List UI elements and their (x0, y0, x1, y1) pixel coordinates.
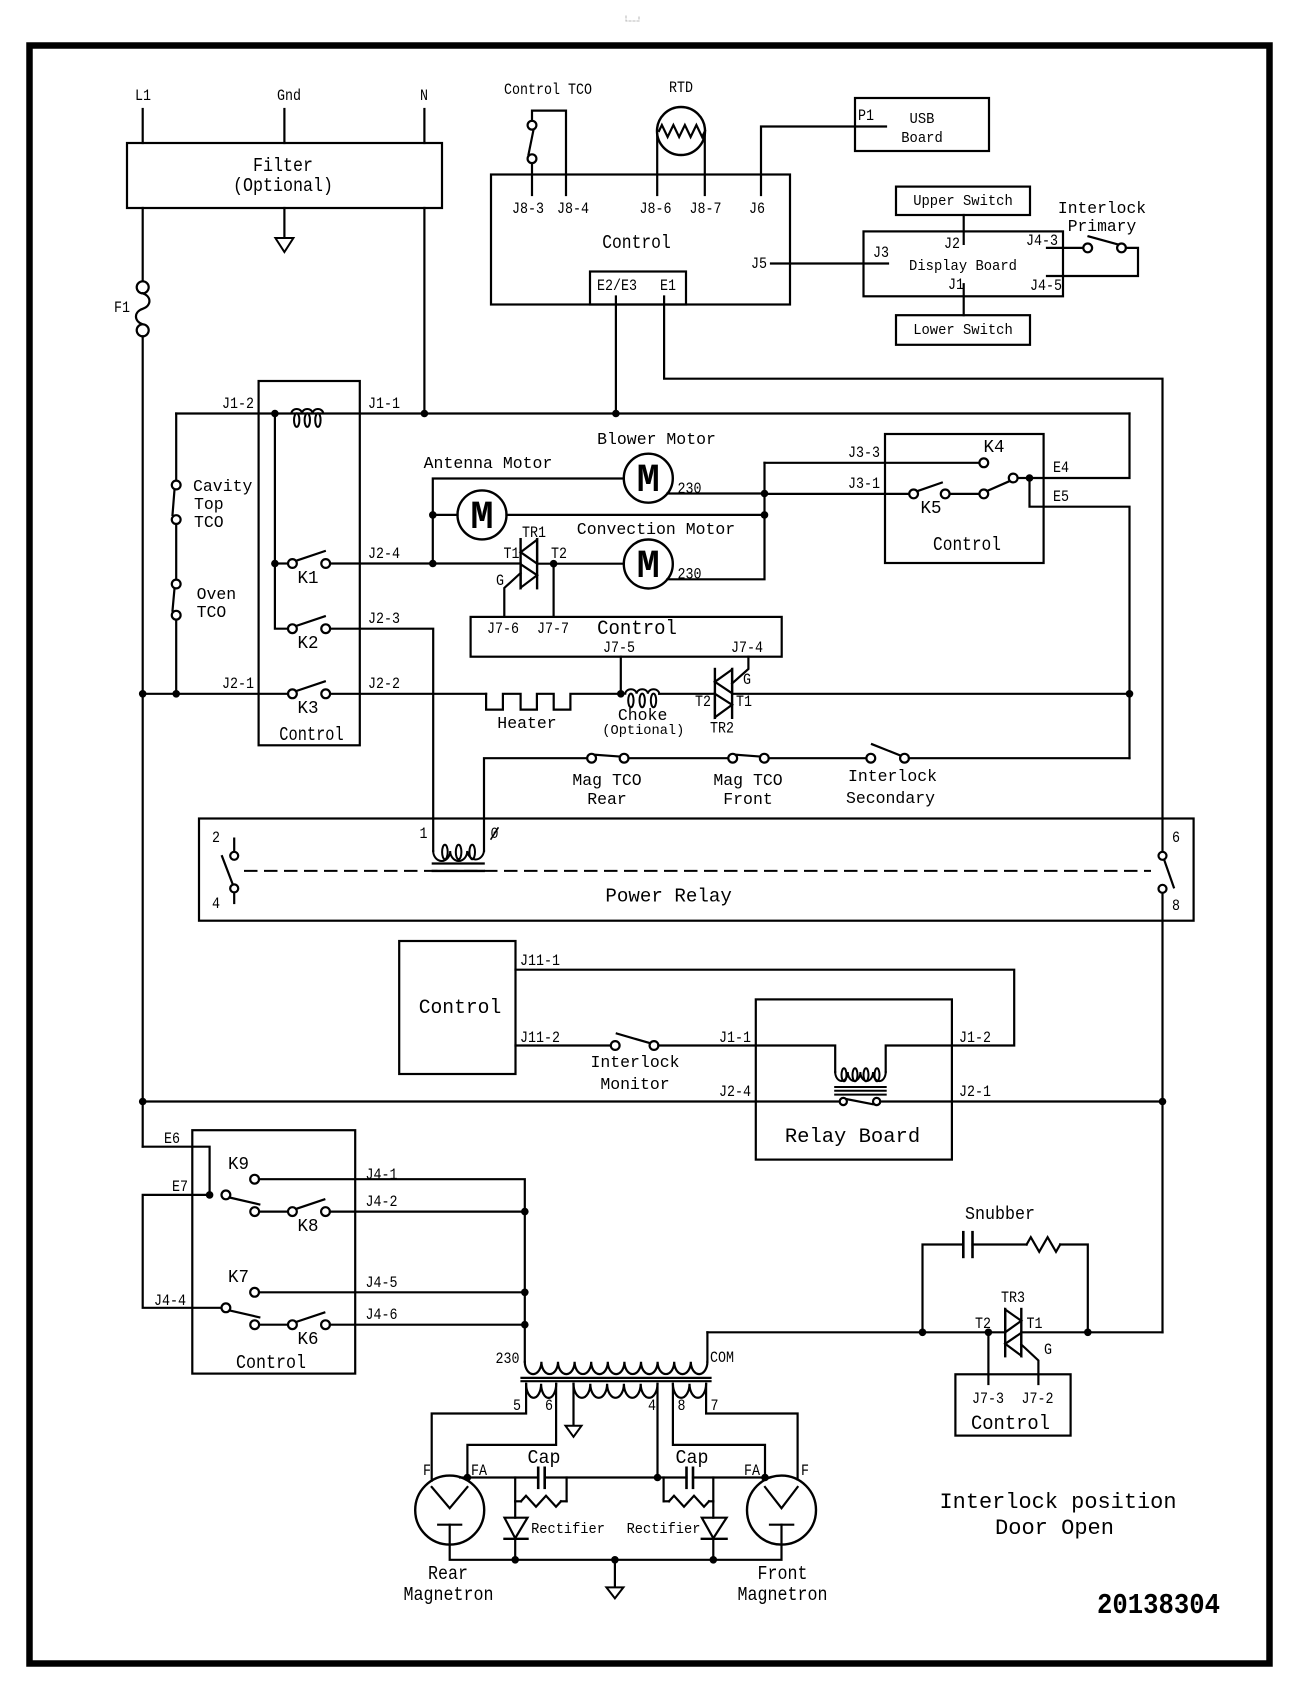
USB board box (855, 98, 989, 151)
bleed resistor R1 (515, 1500, 521, 1502)
filter FL1 box (127, 143, 442, 208)
svg-text:J7-3: J7-3 (972, 1390, 1004, 1408)
svg-text:J1-2: J1-2 (959, 1029, 991, 1047)
power relay core line (433, 862, 484, 864)
svg-text:Front: Front (723, 791, 773, 810)
junction front FA (761, 1474, 769, 1482)
wire J4-3 to interlock primary (1047, 247, 1083, 249)
svg-text:Interlock: Interlock (1058, 200, 1146, 219)
choke inductor (625, 689, 659, 694)
svg-text:Blower Motor: Blower Motor (597, 431, 716, 450)
svg-text:Control: Control (597, 618, 677, 641)
svg-text:J2: J2 (944, 235, 960, 253)
svg-text:J3: J3 (873, 244, 889, 262)
svg-text:Rear: Rear (428, 1563, 468, 1585)
relay contact K9 (250, 1175, 259, 1184)
wire convection right (667, 463, 764, 580)
svg-text:K4: K4 (984, 438, 1005, 458)
relay contact K6 (250, 1320, 259, 1329)
wire RTD leads (656, 134, 658, 195)
svg-text:J3-3: J3-3 (848, 444, 880, 462)
svg-text:Rectifier: Rectifier (627, 1521, 701, 1538)
svg-text:J8-3: J8-3 (512, 200, 544, 218)
thermostat mag TCO front (728, 754, 737, 763)
switch interlock monitor (611, 1041, 620, 1050)
wire J2-1 line (952, 1100, 1163, 1102)
convection motor M3 (624, 540, 673, 589)
svg-text:COM: COM (710, 1349, 734, 1367)
svg-text:(Optional): (Optional) (233, 175, 333, 197)
wire J11-2 to interlock monitor (516, 1044, 611, 1046)
svg-text:230: 230 (496, 1350, 520, 1368)
bleed resistor R2 (664, 1500, 669, 1502)
svg-text:Magnetron: Magnetron (404, 1584, 494, 1606)
power relay contact 2-4 (233, 839, 235, 852)
svg-text:J2-3: J2-3 (368, 610, 400, 628)
power relay box (199, 819, 1194, 921)
relay contact K5 (909, 490, 918, 499)
svg-text:Primary: Primary (1068, 218, 1137, 237)
svg-text:J4-5: J4-5 (366, 1274, 398, 1292)
junction L1/J2-1 (139, 690, 147, 698)
pole contact E7 (222, 1191, 231, 1200)
fan control box (K4/K5) (885, 434, 1044, 563)
wire TR2 T1 line (732, 693, 1129, 695)
svg-text:Filter: Filter (253, 155, 313, 177)
wire mag TCO front to interlock (769, 757, 867, 759)
svg-text:Cap: Cap (528, 1447, 561, 1469)
svg-text:Magnetron: Magnetron (738, 1584, 828, 1606)
triac control box (J7) (471, 617, 782, 657)
svg-text:5: 5 (513, 1397, 521, 1415)
svg-text:2: 2 (212, 829, 220, 847)
wire J1 to lower switch (963, 284, 965, 315)
svg-text:J8-6: J8-6 (640, 200, 672, 218)
svg-text:Interlock position: Interlock position (940, 1490, 1177, 1515)
power relay coil legs (432, 819, 434, 852)
junction E5/TR2 line (1126, 690, 1134, 698)
wire Gnd stub (283, 109, 285, 143)
wire J7-4 to TR2 gate (732, 657, 748, 684)
svg-text:Secondary: Secondary (846, 790, 935, 809)
wire E7/J4-4 bracket (143, 1195, 222, 1308)
svg-text:J7-2: J7-2 (1022, 1390, 1054, 1408)
wire J2-4 line (143, 1100, 756, 1102)
switch interlock secondary (866, 754, 875, 763)
svg-text:J4-1: J4-1 (366, 1166, 398, 1184)
wire J4-1 (259, 1179, 525, 1362)
junction D1/cathode bus (511, 1556, 519, 1564)
capacitor C2 (685, 1468, 688, 1488)
svg-text:Top: Top (194, 496, 224, 515)
wire relay coil 0 riser (484, 758, 587, 818)
svg-text:Mag TCO: Mag TCO (713, 772, 782, 791)
top margin printing artifact (626, 16, 639, 21)
svg-text:G: G (1044, 1341, 1052, 1359)
junction J4-5 (521, 1289, 529, 1297)
svg-text:(Optional): (Optional) (602, 723, 684, 739)
wire J1 line (176, 412, 1129, 414)
wire J7-7 drop (552, 564, 554, 617)
svg-text:TR3: TR3 (1001, 1289, 1025, 1307)
svg-text:J7-4: J7-4 (731, 639, 763, 657)
antenna motor M1 (458, 490, 507, 539)
svg-text:Oven: Oven (197, 586, 237, 605)
wire interlock primary return to J4-5 (1047, 248, 1138, 276)
junction D2/cathode bus (710, 1556, 718, 1564)
thermostat oven TCO (172, 580, 181, 589)
wire filament center tap ground (572, 1384, 574, 1426)
junction K1 pole (271, 560, 279, 568)
svg-text:Cavity: Cavity (193, 478, 252, 497)
wire J11-1 to J1-2 (516, 970, 1015, 1046)
svg-text:7: 7 (711, 1397, 719, 1415)
wire oven TCO to J2-1 (175, 620, 177, 694)
svg-text:Upper Switch: Upper Switch (913, 194, 1013, 210)
svg-text:F: F (801, 1462, 809, 1480)
svg-text:TCO: TCO (197, 604, 227, 623)
wire pin5 to rear magnetron F (432, 1384, 526, 1481)
wire pin7 to front magnetron F (706, 1384, 798, 1480)
wire K1 pole (275, 562, 288, 564)
wire COM riser (706, 1332, 708, 1362)
magnetron control box (K6-K9) (192, 1130, 355, 1373)
svg-text:J1-2: J1-2 (222, 395, 254, 413)
svg-text:RTD: RTD (669, 79, 693, 97)
svg-text:L1: L1 (135, 87, 151, 105)
transformer core (522, 1377, 711, 1379)
svg-text:T2: T2 (695, 693, 711, 711)
svg-text:Rectifier: Rectifier (531, 1521, 605, 1538)
wire J5 to display board (771, 262, 888, 264)
svg-text:TCO: TCO (194, 514, 224, 533)
svg-text:230: 230 (678, 480, 702, 498)
svg-text:P1: P1 (858, 107, 874, 125)
relay board coil (835, 1072, 885, 1081)
svg-text:J1-1: J1-1 (719, 1029, 751, 1047)
svg-text:Snubber: Snubber (965, 1205, 1035, 1225)
svg-text:J2-4: J2-4 (368, 545, 400, 563)
junction motors/J2-4 (429, 560, 437, 568)
wire mag TCO rear to front (629, 757, 729, 759)
wire pin6 to rear FA (467, 1384, 556, 1478)
relay board coil wire right (886, 1046, 952, 1073)
pole contact J4-4 (222, 1303, 231, 1312)
E2/E3 terminal box (590, 272, 686, 305)
svg-text:USB: USB (910, 112, 935, 128)
svg-text:F1: F1 (114, 299, 130, 317)
svg-text:J4-4: J4-4 (154, 1292, 186, 1310)
svg-text:Control: Control (602, 232, 671, 254)
svg-text:Control TCO: Control TCO (504, 81, 592, 99)
junction J7-5/heater line (617, 690, 625, 698)
svg-text:Rear: Rear (587, 791, 627, 810)
ground symbol (filter) (275, 238, 293, 252)
wire relay terminal 8 drop (1161, 893, 1163, 1332)
svg-text:J11-2: J11-2 (520, 1029, 560, 1047)
power relay dashed line (245, 870, 1150, 872)
wire FA line left (460, 1476, 538, 1478)
blower motor M2 (624, 454, 673, 503)
svg-text:J6: J6 (749, 200, 765, 218)
svg-text:Relay Board: Relay Board (785, 1126, 920, 1149)
relay coil K1/K2/K3 (291, 409, 323, 413)
wire E5 route (1030, 478, 1130, 758)
svg-text:K9: K9 (228, 1155, 249, 1175)
svg-text:Control: Control (419, 997, 502, 1020)
svg-text:FA: FA (471, 1462, 487, 1480)
wire TR1 gate to J7-6 (504, 573, 520, 617)
svg-text:E5: E5 (1053, 488, 1069, 506)
svg-text:J2-1: J2-1 (959, 1083, 991, 1101)
svg-text:K3: K3 (298, 699, 319, 719)
svg-text:Convection Motor: Convection Motor (577, 521, 735, 540)
svg-text:K6: K6 (298, 1330, 319, 1350)
svg-text:J7-7: J7-7 (537, 620, 569, 638)
svg-text:Heater: Heater (497, 715, 556, 734)
snubber network (923, 1245, 964, 1333)
relay board box (756, 999, 952, 1159)
svg-text:K7: K7 (228, 1268, 249, 1288)
wire J2-2 line to heater (330, 693, 486, 695)
relay contacts box (K1-K3 control) (259, 381, 360, 745)
wire COM to TR3 line (707, 1331, 1005, 1333)
wire J7-3 drop (987, 1332, 989, 1384)
wire J3-3 line (765, 462, 980, 464)
svg-text:Power Relay: Power Relay (605, 886, 732, 908)
svg-text:G: G (496, 572, 504, 590)
wire blower left (433, 479, 624, 564)
wire J2-1 line (143, 693, 288, 695)
svg-text:TR1: TR1 (522, 524, 546, 542)
wire control TCO loop (532, 111, 566, 195)
wire J7-5 drop (620, 657, 622, 694)
wire K5 to pole throw (950, 493, 980, 495)
svg-text:J1-1: J1-1 (368, 395, 400, 413)
svg-text:T1: T1 (1027, 1315, 1043, 1333)
svg-text:E6: E6 (164, 1130, 180, 1148)
svg-text:M: M (637, 545, 660, 590)
rectifier D1 (514, 1501, 516, 1517)
thermostat mag TCO rear (587, 754, 596, 763)
svg-text:4: 4 (212, 895, 220, 913)
ground symbol (filament) (566, 1426, 582, 1437)
wire blower right to J3-1 (667, 492, 764, 494)
relay board core lines (835, 1086, 886, 1088)
svg-text:Display Board: Display Board (909, 259, 1017, 275)
junction TR3 T2 / J7-3 (985, 1329, 993, 1337)
svg-text:J11-1: J11-1 (520, 952, 560, 970)
wire TR3 gate to J7-2 (1021, 1345, 1038, 1385)
relay contact K4 (979, 458, 988, 467)
svg-text:E1: E1 (660, 277, 676, 295)
junction blower/J3-1 riser (761, 490, 769, 498)
relay contact K8 (250, 1207, 259, 1216)
svg-text:J8-7: J8-7 (690, 200, 722, 218)
junction terminal8/J2-1 (1159, 1098, 1167, 1106)
wire interlock secondary to E5 (909, 757, 1130, 759)
svg-text:Control: Control (971, 1413, 1050, 1436)
svg-text:F: F (423, 1462, 431, 1480)
control board U1 box (491, 175, 790, 305)
svg-text:6: 6 (1172, 829, 1180, 847)
svg-text:J4-5: J4-5 (1030, 277, 1062, 295)
TR3 control box (955, 1374, 1070, 1435)
wire E6 (143, 1147, 210, 1195)
wire J4-5 (259, 1291, 525, 1293)
wire L1 main vertical (142, 336, 144, 1146)
upper switch box (896, 187, 1030, 215)
svg-text:E2/E3: E2/E3 (597, 277, 637, 295)
wire J2-3 to power relay coil 1 (330, 629, 433, 819)
svg-text:K2: K2 (298, 634, 319, 654)
junction E6/E7 (206, 1191, 214, 1199)
power relay core line 2 (433, 870, 484, 872)
wire K1 to K2 (275, 564, 288, 629)
svg-text:Door Open: Door Open (995, 1516, 1114, 1541)
svg-text:8: 8 (678, 1397, 686, 1415)
junction antenna tap (429, 511, 437, 519)
lower switch box (896, 315, 1030, 345)
wire coil tap to K1 (274, 414, 276, 564)
svg-text:6: 6 (545, 1397, 553, 1415)
relay board coil wire (756, 1046, 835, 1073)
power relay coil (433, 851, 484, 861)
junction ground/cathode bus (611, 1556, 619, 1564)
svg-text:G: G (743, 671, 751, 689)
rear magnetron V1 (415, 1476, 484, 1545)
svg-text:J2-2: J2-2 (368, 675, 400, 693)
wire upper switch to J2 (963, 215, 965, 244)
wire E1 to relay terminal 6 (664, 297, 1162, 852)
wire interlock monitor to J1-1 (658, 1044, 755, 1046)
wire TR1 T2 to convection (537, 563, 624, 565)
junction TCO/J2-1 (172, 690, 180, 698)
wire J2-1 inside relay board (880, 1100, 952, 1102)
svg-text:T1: T1 (736, 693, 752, 711)
svg-text:Control: Control (933, 534, 1001, 556)
wire antenna motor left (433, 514, 458, 516)
pole throw contact (979, 490, 988, 499)
svg-text:J3-1: J3-1 (848, 475, 880, 493)
junction snubber right (1084, 1329, 1092, 1337)
triac TR3 (1004, 1309, 1006, 1356)
wire pin4 drop (656, 1384, 658, 1478)
wire J8-3 lead (531, 163, 533, 195)
wire J4-2 (330, 1210, 525, 1212)
svg-text:T1: T1 (504, 545, 520, 563)
svg-text:T2: T2 (975, 1315, 991, 1333)
wire J2-4 to TR1 (330, 562, 520, 564)
relay contact K2 (288, 624, 297, 633)
junction antenna/J3-1 riser (761, 511, 769, 519)
transformer secondary 5-6 (526, 1384, 556, 1398)
svg-text:J7-6: J7-6 (487, 620, 519, 638)
junction N tap (421, 410, 429, 418)
svg-text:FA: FA (744, 1462, 760, 1480)
svg-text:Front: Front (758, 1563, 808, 1585)
junction E2/E3 tap (612, 410, 620, 418)
svg-text:K1: K1 (298, 569, 319, 589)
wire E4 riser (1030, 414, 1130, 479)
svg-text:K8: K8 (298, 1217, 319, 1237)
svg-text:Interlock: Interlock (590, 1054, 679, 1073)
svg-text:Control: Control (279, 724, 343, 746)
thermostat Control TCO (528, 121, 537, 130)
svg-text:J8-4: J8-4 (557, 200, 589, 218)
ground symbol (cathode) (606, 1587, 623, 1598)
junction K1-coil tap (271, 410, 279, 418)
wire choke to TR2 (659, 693, 715, 695)
bleed resistor R1 legs (514, 1478, 516, 1502)
relay contact K7 (250, 1288, 259, 1297)
svg-text:Control: Control (236, 1352, 306, 1374)
svg-text:Interlock: Interlock (848, 768, 937, 787)
wire FA line mid (545, 1476, 687, 1478)
svg-text:J7-5: J7-5 (603, 639, 635, 657)
wire L1 stub (142, 109, 144, 143)
svg-text:Gnd: Gnd (277, 87, 301, 105)
svg-text:M: M (471, 496, 494, 541)
front magnetron V2 (747, 1476, 816, 1545)
relay contact K3 (288, 689, 297, 698)
power relay contact 6-8 (1159, 852, 1167, 860)
wire pin8 to front FA (673, 1384, 765, 1478)
junction rear FA (464, 1474, 472, 1482)
capacitor C1 (537, 1468, 540, 1488)
switch interlock primary (1083, 244, 1092, 253)
wire J3-1 line (765, 493, 910, 495)
svg-text:4: 4 (648, 1397, 656, 1415)
svg-text:20138304: 20138304 (1097, 1589, 1220, 1622)
wire magnetron cathode bus (450, 1545, 782, 1560)
wire E2/E3 drop (615, 297, 617, 414)
svg-text:J4-6: J4-6 (366, 1306, 398, 1324)
thermostat cavity top TCO (172, 481, 181, 490)
svg-text:8: 8 (1172, 897, 1180, 915)
fuse F1 (137, 281, 149, 293)
transformer secondary 8-7 (673, 1384, 706, 1398)
svg-text:K5: K5 (921, 499, 942, 519)
wire between TCOs (175, 524, 177, 580)
wire J6 to USB board (761, 127, 886, 196)
wire FA line right (693, 1476, 770, 1478)
wire TCO branch (175, 414, 177, 481)
svg-text:Board: Board (901, 131, 943, 147)
wire J2-4 inside relay board (756, 1100, 840, 1102)
svg-text:J4-2: J4-2 (366, 1193, 398, 1211)
svg-text:N: N (420, 87, 428, 105)
transformer filament winding (574, 1384, 658, 1398)
svg-text:Antenna Motor: Antenna Motor (424, 455, 553, 474)
bleed resistor R2 legs (662, 1478, 664, 1502)
wire J4-6 (330, 1324, 525, 1326)
junction L1/J2-4 (139, 1098, 147, 1106)
svg-text:J5: J5 (751, 255, 767, 273)
relay contact K1 (288, 559, 297, 568)
triac TR2 (714, 669, 716, 718)
wire cathode ground lead (614, 1560, 616, 1588)
svg-text:E4: E4 (1053, 459, 1069, 477)
svg-text:J2-4: J2-4 (719, 1083, 751, 1101)
svg-text:Mag TCO: Mag TCO (572, 772, 641, 791)
junction J4-2 (521, 1208, 529, 1216)
junction E4/E5 pole (1026, 474, 1034, 482)
svg-text:TR2: TR2 (710, 720, 734, 738)
svg-text:J2-1: J2-1 (222, 675, 254, 693)
heater element (486, 694, 621, 710)
junction pin4/FA line (654, 1474, 662, 1482)
